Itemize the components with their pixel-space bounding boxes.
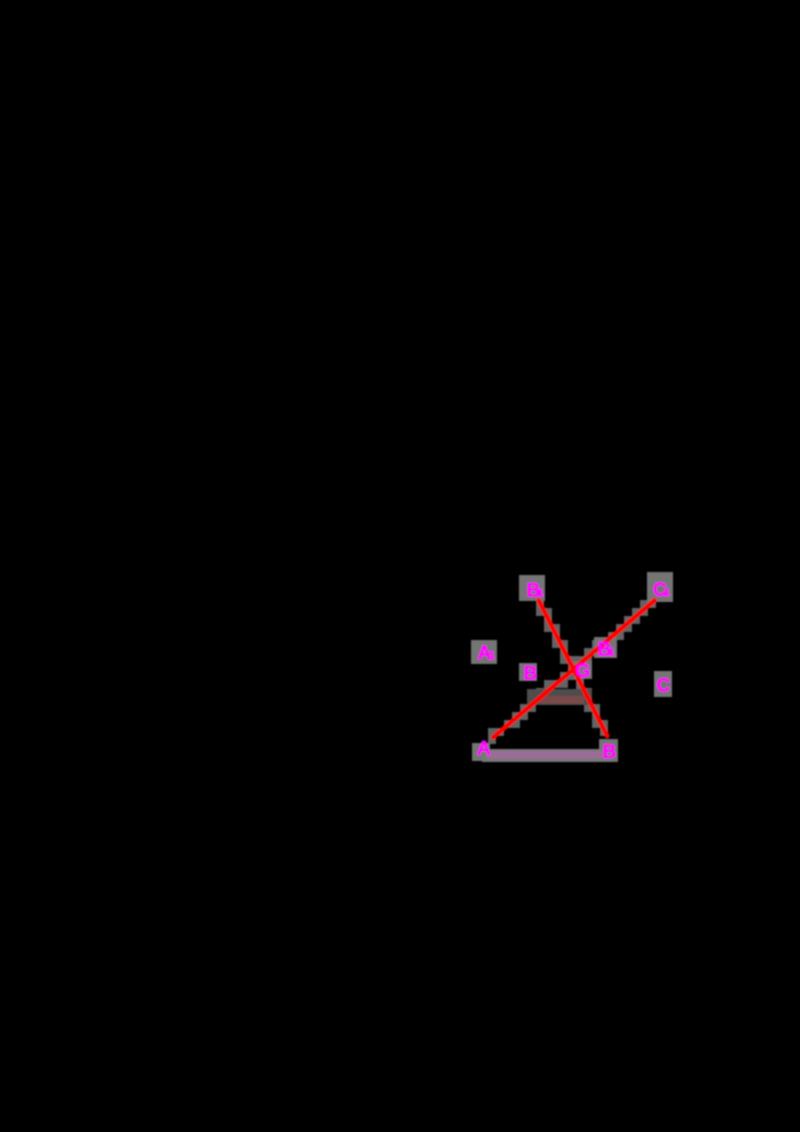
dark maroon segment — [540, 696, 584, 704]
artifact tile label B bottom — [599, 739, 618, 762]
artifact tile label C1 top-right — [647, 572, 673, 602]
svg-text:1: 1 — [538, 588, 544, 600]
svg-text:1: 1 — [609, 647, 615, 659]
artifact halo around dark segment — [527, 689, 592, 705]
red segment B1-B — [539, 601, 607, 736]
purple segment A-B — [487, 751, 605, 759]
artifact blocks along segment C1-A — [488, 728, 496, 736]
svg-text:1: 1 — [664, 587, 670, 599]
artifact tile label B left-center — [519, 663, 537, 681]
red segment C1-A — [493, 600, 654, 737]
artifact blocks along segment B1-B — [536, 600, 544, 608]
svg-text:C: C — [657, 676, 671, 697]
artifact band under segment AB — [482, 749, 612, 762]
svg-text:A: A — [477, 739, 491, 760]
artifact tile label B1 center — [594, 637, 617, 658]
svg-text:G: G — [576, 661, 591, 682]
artifact tile label A1 left — [471, 640, 497, 664]
svg-text:B: B — [524, 664, 538, 685]
svg-text:B: B — [603, 742, 617, 763]
artifact tile label A bottom — [472, 743, 490, 761]
artifact tile label C right — [654, 671, 672, 697]
artifact tile label G — [574, 661, 592, 679]
artifact tile label B1 top-left — [519, 575, 545, 601]
svg-text:1: 1 — [489, 650, 495, 662]
